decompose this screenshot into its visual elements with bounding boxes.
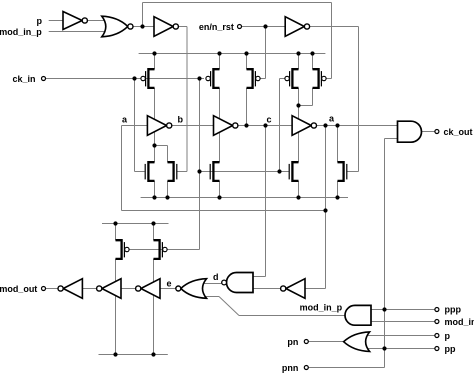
junction ppp tap [382,307,386,311]
svg-text:a: a [122,115,128,125]
inverter U1 (p) [63,12,82,30]
wire PMOS M4 source lead [298,54,300,70]
wire node a feedback horizontal [122,210,326,212]
junction en/n_rst [263,24,267,28]
wire ppp input to AND U13 [371,309,435,311]
junction node c tap 1 [244,123,248,127]
pin pnn [304,366,308,370]
junction node a tap 2 [335,123,339,127]
junction source rail 3 [217,195,221,199]
junction rail M1 [152,51,156,55]
wire PMOS M10 source lead down through U8 [115,259,117,355]
wire node a into inverter U4 [122,125,148,127]
wire pp input to OR U14 [367,348,435,350]
wire inverter U2 output [178,26,187,28]
junction node a tap 1 [323,123,327,127]
nmos M9 [338,162,344,181]
svg-text:ppp: ppp [445,305,462,315]
wire NOR U10 lower input [204,296,220,298]
pin mod_out [42,287,46,291]
junction rail M4 [296,51,300,55]
junction NMOS gate net [197,169,201,173]
wire node a from inverter U6 to AND U7 [316,125,397,127]
AND gate U7 (ck_out) [398,121,422,142]
inverter U8 (mod_out chain) [102,279,121,299]
svg-text:mod_out: mod_out [0,284,37,294]
inverter U2 [154,17,173,37]
wire vertical NOR output to top net [142,3,144,27]
wire PMOS M1 drain lead down through U4 [154,88,156,162]
wire NMOS M9 source lead [337,181,339,198]
junction ck_in branch 1 [132,76,136,80]
wire NMOS M5/M6 drain tie [155,145,168,147]
inverter U9 (mod_out chain) [141,279,160,299]
wire inverter U12 input [305,288,326,290]
wire NMOS M6 gate [177,171,187,173]
wire vertical U3 output down to NMOS M9 gate [358,27,360,172]
inverter U8a (mod_out chain) [63,279,82,299]
wire PMOS M4 gate stub [280,78,285,80]
wire source rail [141,197,348,199]
nmos M7 [213,162,219,181]
wire PMOS M3 gate to en/n_rst column [260,78,266,80]
NAND gate U11 (d) [227,273,254,293]
wire vertical en/n_rst down to PMOS M3 gate [265,27,267,79]
wire inverter U3 output [309,26,358,28]
wire en/n_rst to inverter U3 [242,26,286,28]
pin pn [304,340,308,344]
wire PMOS M1 source lead [154,54,156,70]
wire mod_in_p net to AND U13 [239,315,348,317]
svg-text:mod_in: mod_in [445,317,474,327]
junction source rail 1 [152,195,156,199]
wire PMOS M11 drain lead up [153,224,155,241]
inverter U4 (a to b) [147,116,166,136]
wire NMOS M9 drain lead to node a [337,126,339,163]
wire NMOS M8 source lead [298,181,300,198]
junction node c tap 2 [263,123,267,127]
wire ck_in net [46,78,204,80]
inverter U6 (c to a) [292,116,311,136]
wire top drain rail [139,53,326,55]
wire PMOS M4 drain lead [298,88,300,106]
nmos M5 [148,162,154,181]
svg-text:a: a [329,114,335,124]
junction node a feedback [323,208,327,212]
wire mod_out chain segment 4 [160,288,176,290]
junction NOR U0 output [140,24,144,28]
junction PMOS pair drains [296,103,300,107]
junction lower PMOS drain 2 [151,221,155,225]
wire vertical ck_in down to NMOS M5 gate [134,79,136,172]
svg-text:mod_in_p: mod_in_p [0,27,42,37]
svg-text:pnn: pnn [282,363,299,373]
wire PMOS M4b source lead [312,54,314,70]
pin ck_out [435,130,439,134]
wire NMOS M8 drain lead down through U6 [298,106,300,163]
wire mod_in_p input to NOR U0 [49,31,106,33]
pin p out [435,334,439,338]
wire NAND U11 output to NOR U10 [203,283,221,285]
inverter U5 (b to c) [214,116,233,136]
svg-text:p: p [37,16,43,26]
pmos M3 [247,69,253,88]
wire AND U7 output to ck_out [422,131,435,133]
pmos M11 [154,240,160,259]
wire vertical PMOS M4 gate down to NMOS gate net [279,79,281,172]
wire inverter U1 output to NOR U0 [88,20,106,22]
AND gate U13 (mod_in_p) [345,305,371,325]
pin mod_in [435,320,439,324]
junction bottom rail 2 [151,352,155,356]
inverter U12 [286,279,305,299]
pin ppp [435,308,439,312]
pmos M10 [116,240,122,259]
wire vertical node a down to inverter U12 [325,126,327,289]
svg-text:ck_in: ck_in [12,74,35,84]
pmos M4 [292,69,298,88]
svg-text:c: c [267,115,272,125]
svg-text:pn: pn [287,337,298,347]
wire mod_out chain segment 2 [82,288,96,290]
wire PMOS M3 source lead [246,54,248,70]
pmos M2 [213,69,219,88]
wire vertical node a feedback [121,126,123,211]
svg-text:mod_in_p: mod_in_p [300,303,343,313]
wire node c [238,125,292,127]
wire AND U7 lower input [385,138,398,140]
inverter U3 [285,17,304,37]
wire top net from NOR output to right side [143,2,332,4]
nmos M8 [292,162,298,181]
wire mod_out chain segment 1 [46,288,59,290]
junction rail M3 [244,51,248,55]
svg-text:d: d [213,272,219,282]
wire vertical node c down to NAND U11 [265,126,267,277]
wire PMOS M4b gate to top net column [326,78,332,80]
svg-text:pp: pp [445,344,456,354]
NOR gate U0 [102,16,128,37]
svg-text:p: p [445,331,451,341]
junction rail M4b [310,51,314,55]
wire PMOS M2 drain lead down through U5 [219,88,221,162]
wire vertical U2 output down to NMOS M6 gate [186,27,188,172]
svg-text:e: e [166,279,171,289]
wire PMOS pair drain tie [299,105,313,107]
junction lower PMOS drain 1 [113,221,117,225]
pin ck_in [42,77,46,81]
svg-text:en/n_rst: en/n_rst [199,22,234,32]
junction source rail 4 [296,195,300,199]
wire mod_in input to AND U13 [371,321,435,323]
wire lower PMOS gate net [129,249,199,251]
pin pp [435,347,439,351]
wire NMOS M6 source lead [167,181,169,198]
wire NMOS M7 source lead [219,181,221,198]
junction rail M2 [217,51,221,55]
wire NOR U0 output to inverter U2 [133,26,154,28]
pin en/n_rst [238,25,242,29]
OR gate U14 (pn) [344,332,370,352]
wire p input [49,20,63,22]
wire bottom source rail [99,354,168,356]
wire NMOS M5 source lead [154,181,156,198]
wire lower PMOS drain tie [102,223,169,225]
wire p input to OR U14 [367,335,435,337]
wire PMOS M11 source lead down through U9 [153,259,155,355]
svg-text:b: b [178,115,184,125]
wire PMOS M10 drain lead up [115,224,117,241]
wire vertical mod_in_p column [384,139,386,368]
wire mod_out chain segment 3 [121,288,136,290]
wire pnn net [308,367,384,369]
pmos M4b [313,69,319,88]
wire node b [172,125,214,127]
wire NMOS M9 gate [347,171,359,173]
pmos M1 [148,69,154,88]
wire diagonal to mod_in_p net [219,297,239,316]
wire vertical top net down to PMOS M4b gate [331,3,333,79]
wire NMOS M6 drain lead [167,146,169,163]
wire PMOS M2 source lead [219,54,221,70]
wire pn to OR U14 [308,341,343,343]
junction source rail 2 [165,195,169,199]
nmos M6 [168,162,174,181]
wire PMOS M3 drain lead to node c [246,88,248,126]
junction ck_in branch 2 [197,76,201,80]
NOR gate U10 (e) [181,279,207,299]
junction M5/M6 drains [152,143,156,147]
junction bottom rail 1 [113,352,117,356]
wire NMOS M7/M8 gate net [200,171,289,173]
wire NAND U11 lower input to inverter U12 [253,288,281,290]
svg-text:ck_out: ck_out [444,127,473,137]
wire PMOS M4b drain lead [312,88,314,106]
wire vertical ck_in branch down to lower PMOS gates [199,79,201,250]
junction source rail 5 [335,195,339,199]
junction pp tap [382,346,386,350]
junction M7 gate tap [277,169,281,173]
wire NMOS M5 gate [135,171,145,173]
wire NAND U11 upper input [253,276,266,278]
